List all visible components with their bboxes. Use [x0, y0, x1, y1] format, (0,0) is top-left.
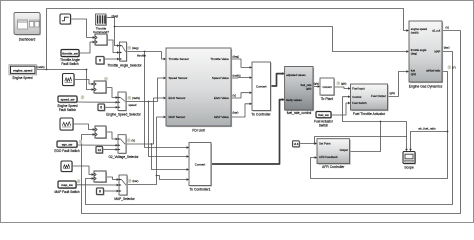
svg-text:FDI Unit: FDI Unit	[192, 128, 204, 132]
svg-text:Throttle_Angle_Selector: Throttle_Angle_Selector	[107, 64, 142, 68]
svg-text:air_fuel_ratio: air_fuel_ratio	[418, 126, 436, 130]
svg-text:Fault Switch: Fault Switch	[59, 108, 77, 112]
svg-text:(bar): (bar)	[444, 46, 450, 50]
svg-text:Output: Output	[340, 148, 349, 152]
svg-text:Fuel Throttle Actuator: Fuel Throttle Actuator	[353, 112, 386, 116]
svg-text:Switch: Switch	[319, 123, 329, 127]
svg-text:(V): (V)	[132, 139, 136, 143]
svg-text:EGO Sensor: EGO Sensor	[169, 96, 186, 100]
svg-text:(V): (V)	[233, 94, 237, 98]
svg-text:(g/s): (g/s)	[314, 81, 319, 85]
svg-text:(bar): (bar)	[233, 111, 239, 115]
svg-text:Engine Gas Dynamics: Engine Gas Dynamics	[409, 84, 443, 88]
svg-text:MAP Sensor: MAP Sensor	[169, 115, 186, 119]
svg-text:throttle_sw: throttle_sw	[62, 51, 78, 55]
svg-text:0: 0	[99, 189, 101, 193]
svg-text:(g/s): (g/s)	[341, 82, 346, 86]
svg-text:engine_speed: engine_speed	[13, 69, 33, 73]
svg-text:map_sw: map_sw	[61, 183, 73, 187]
svg-text:MAP Fault Switch: MAP Fault Switch	[54, 190, 79, 194]
svg-text:Command?: Command?	[93, 30, 109, 34]
svg-text:0: 0	[99, 58, 101, 62]
svg-text:EGO Fault Switch: EGO Fault Switch	[54, 149, 80, 153]
svg-text:Convert: Convert	[322, 85, 331, 89]
svg-text:throttle angle: throttle angle	[411, 48, 427, 52]
svg-text:Dashboard: Dashboard	[19, 38, 36, 42]
svg-text:speed_sw: speed_sw	[61, 97, 76, 101]
svg-text:To Plant: To Plant	[321, 97, 333, 101]
svg-text:AFR Feedback: AFR Feedback	[319, 155, 338, 159]
svg-text:(bar): (bar)	[133, 179, 139, 183]
svg-text:Fuel Input: Fuel Input	[352, 87, 365, 91]
svg-text:Throttle Sensor: Throttle Sensor	[169, 57, 190, 61]
svg-text:MAP Value: MAP Value	[214, 115, 229, 119]
svg-text:(g/s): (g/s)	[390, 91, 395, 95]
svg-text:(rad/s): (rad/s)	[233, 74, 241, 78]
svg-text:faulty values: faulty values	[286, 98, 302, 102]
svg-text:MAP_Selector: MAP_Selector	[114, 197, 135, 201]
svg-text:0: 0	[100, 105, 102, 109]
svg-text:O2_Voltage_Selector: O2_Voltage_Selector	[108, 155, 139, 159]
svg-text:fuel: fuel	[411, 69, 416, 73]
svg-text:(rad/s): (rad/s)	[132, 96, 140, 100]
svg-text:(deg): (deg)	[112, 14, 119, 18]
svg-text:air/fuel ratio: air/fuel ratio	[426, 69, 441, 73]
svg-text:Convert: Convert	[256, 84, 267, 88]
svg-text:(rad/s): (rad/s)	[411, 31, 419, 35]
svg-text:Speed Value: Speed Value	[212, 76, 229, 80]
svg-text:12: 12	[98, 148, 102, 152]
svg-text:(deg): (deg)	[233, 55, 240, 59]
svg-text:fuel_rate_control: fuel_rate_control	[287, 111, 312, 115]
svg-text:14.6: 14.6	[293, 143, 298, 146]
svg-text:To Controller1: To Controller1	[189, 188, 210, 192]
svg-text:engine speed: engine speed	[411, 27, 428, 31]
svg-text:(rad/s): (rad/s)	[37, 65, 45, 69]
svg-text:(deg): (deg)	[132, 46, 139, 50]
svg-text:(V): (V)	[446, 26, 450, 30]
svg-text:(Y): (Y)	[452, 66, 456, 70]
svg-text:To Controller: To Controller	[251, 112, 271, 116]
svg-text:(g/s): (g/s)	[306, 86, 312, 90]
svg-text:Engine Speed: Engine Speed	[12, 76, 32, 80]
svg-text:Engine_Speed_Selector: Engine_Speed_Selector	[106, 112, 141, 116]
svg-text:fuel_sw: fuel_sw	[318, 113, 329, 117]
svg-text:Throttle Value: Throttle Value	[210, 57, 229, 61]
svg-text:Convert: Convert	[195, 162, 206, 166]
svg-text:adjusted values: adjusted values	[286, 73, 306, 77]
svg-text:Fuel Output: Fuel Output	[371, 94, 386, 98]
svg-text:(deg): (deg)	[411, 52, 417, 56]
svg-text:MAP: MAP	[434, 50, 440, 54]
svg-text:speed: speed	[129, 103, 137, 107]
svg-text:throttle: throttle	[137, 53, 146, 57]
svg-text:Fault Switch: Fault Switch	[61, 62, 79, 66]
svg-text:AFR Controller: AFR Controller	[322, 165, 345, 169]
svg-text:(g/s): (g/s)	[411, 72, 416, 76]
svg-text:Fuel Switch: Fuel Switch	[352, 101, 367, 105]
svg-text:Control: Control	[352, 95, 361, 99]
svg-text:Set Point: Set Point	[319, 142, 331, 146]
svg-text:Speed Sensor: Speed Sensor	[169, 76, 188, 80]
svg-text:o2_out: o2_out	[432, 29, 440, 33]
svg-text:ego_sw: ego_sw	[62, 142, 73, 146]
svg-text:EGO Value: EGO Value	[214, 96, 229, 100]
svg-text:Scope: Scope	[404, 166, 414, 170]
